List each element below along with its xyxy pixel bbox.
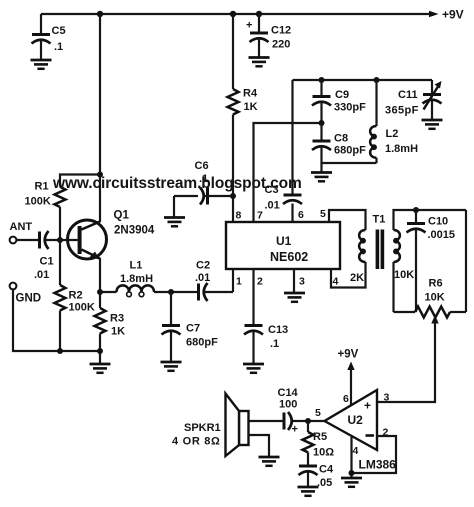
variable capacitor C11 365pF [385, 80, 442, 119]
node L1-C7 junction [168, 289, 174, 295]
svg-text:1K: 1K [111, 326, 125, 338]
svg-text:C4: C4 [319, 464, 334, 476]
ground below U2 pin4 [341, 478, 362, 487]
svg-text:C9: C9 [335, 89, 349, 101]
IC U1 NE602 [226, 222, 340, 269]
svg-text:7: 7 [257, 210, 263, 222]
svg-text:3: 3 [299, 276, 305, 288]
svg-text:U1: U1 [276, 234, 292, 248]
capacitor C14 100 (electrolytic) [249, 387, 299, 436]
svg-text:.1: .1 [54, 41, 63, 53]
svg-text:.1: .1 [270, 338, 279, 350]
wire +9V top supply rail [41, 13, 429, 15]
svg-text:.05: .05 [317, 477, 332, 489]
wire T1 secondary top to right bus [394, 210, 467, 230]
capacitor C1 .01 [17, 231, 78, 281]
svg-text:C10: C10 [428, 216, 448, 228]
capacitor C13 .1 [244, 324, 288, 363]
svg-text:C12: C12 [271, 25, 291, 37]
svg-text:NE602: NE602 [270, 250, 308, 264]
svg-text:1: 1 [236, 276, 242, 288]
svg-text:5: 5 [315, 407, 321, 419]
svg-text:C8: C8 [334, 133, 348, 145]
svg-text:100K: 100K [25, 196, 51, 208]
svg-text:LM386: LM386 [359, 458, 397, 472]
svg-text:10K: 10K [425, 292, 445, 304]
svg-text:2: 2 [257, 276, 263, 288]
svg-text:R1: R1 [35, 181, 49, 193]
svg-text:10Ω: 10Ω [313, 447, 334, 459]
wire U1 pin7 to tank junction [254, 123, 322, 222]
svg-text:+9V: +9V [442, 8, 464, 22]
wire U2 pin4 ground drop [350, 437, 352, 477]
svg-text:4: 4 [353, 445, 359, 457]
node base-R1-R2 junction [57, 237, 63, 243]
node C9-C8-pin7 junction [319, 120, 325, 126]
capacitor C7 680pF [162, 292, 219, 361]
capacitor C10 .0015 [407, 210, 456, 312]
ground below R3/Q1 [90, 364, 111, 373]
svg-text:.01: .01 [34, 269, 49, 281]
svg-text:330pF: 330pF [334, 102, 366, 114]
svg-text:680pF: 680pF [334, 145, 366, 157]
wire U1 pin4 to T1 primary bottom [331, 262, 366, 288]
ground below C4 [298, 487, 319, 496]
ground below C11 [422, 120, 443, 129]
potentiometer R6 10K [394, 278, 467, 318]
wire U2 pin2 feedback loop [351, 436, 396, 473]
arrow +9V into U2 pin6 [347, 362, 354, 407]
op-amp U2 LM386 [325, 390, 378, 450]
svg-text:220: 220 [272, 39, 290, 51]
svg-text:GND: GND [16, 293, 42, 305]
svg-text:5: 5 [320, 208, 326, 220]
svg-text:.01: .01 [265, 200, 280, 212]
wire collector riser x=100 [99, 14, 101, 222]
svg-text:100K: 100K [69, 302, 95, 314]
ground below C8 [311, 173, 332, 182]
svg-text:R6: R6 [429, 278, 443, 290]
svg-text:C2: C2 [196, 260, 210, 272]
svg-text:C14: C14 [278, 387, 299, 399]
wire U1 pin5 to T1 primary top [329, 210, 366, 230]
wire U1 pin3 stub [293, 269, 295, 292]
wire T1 secondary bottom to R6 [392, 262, 394, 312]
svg-text:1.8mH: 1.8mH [385, 143, 418, 155]
svg-text:C11: C11 [398, 89, 418, 101]
node pin4-pin2 junction [349, 470, 355, 476]
node rail-R4 junction [230, 11, 236, 17]
capacitor C5 [32, 14, 66, 59]
resistor R1 100K [25, 175, 101, 241]
ground below U1 pin3 [284, 293, 305, 302]
svg-text:365pF: 365pF [385, 105, 419, 117]
svg-text:1.8mH: 1.8mH [120, 273, 153, 285]
ground below C7 [161, 362, 182, 371]
svg-text:L2: L2 [386, 128, 399, 140]
svg-text:R2: R2 [69, 290, 83, 302]
capacitor C9 330pF [312, 80, 366, 123]
svg-text:+: + [246, 20, 252, 32]
svg-text:C7: C7 [186, 323, 200, 335]
wire R6 right leg [465, 210, 467, 312]
node R1-collector riser junction [97, 172, 103, 178]
svg-text:10K: 10K [394, 269, 414, 281]
wire U2 pin5 output [291, 420, 325, 422]
svg-text:C6: C6 [195, 160, 209, 172]
svg-text:R3: R3 [110, 313, 124, 325]
svg-text:100: 100 [279, 399, 297, 411]
svg-text:4 OR 8Ω: 4 OR 8Ω [172, 436, 221, 448]
speaker SPKR1 [172, 394, 249, 457]
node R2-ground bus junction [57, 348, 63, 354]
svg-text:4: 4 [333, 276, 339, 288]
wire tank top bus [293, 79, 433, 81]
svg-text:6: 6 [343, 393, 349, 405]
svg-text:Q1: Q1 [114, 210, 130, 222]
node tank top C9 junction [319, 77, 325, 83]
svg-text:+: + [292, 424, 298, 436]
svg-text:C13: C13 [268, 324, 288, 336]
wire C8 ground stub [320, 163, 322, 172]
svg-text:C1: C1 [40, 256, 54, 268]
svg-text:ANT: ANT [10, 221, 33, 233]
capacitor C6 .1 [174, 160, 233, 217]
capacitor C3 .01 [265, 184, 303, 212]
capacitor C8 680pF [312, 123, 377, 163]
svg-text:6: 6 [298, 209, 304, 221]
svg-text:680pF: 680pF [186, 337, 218, 349]
resistor R4 1K [228, 14, 258, 196]
transformer T1 [359, 214, 400, 270]
capacitor C4 .05 [299, 464, 334, 490]
ground below C12 [249, 58, 270, 67]
ground below C6 [164, 218, 185, 227]
terminal ANT [10, 221, 33, 243]
node R5 junction [305, 418, 311, 424]
resistor R3 1K [95, 292, 126, 363]
svg-text:2N3904: 2N3904 [114, 225, 155, 237]
ground below C13 [243, 364, 264, 373]
inductor L1 1.8mH [100, 260, 197, 297]
svg-text:U2: U2 [348, 413, 364, 427]
ground below C5 [31, 60, 52, 69]
wire emitter drop x=100 [99, 258, 101, 292]
terminal GND [10, 283, 100, 351]
wiper arrow R6 to U2 pin3 [377, 315, 439, 402]
svg-text:3: 3 [384, 392, 390, 404]
node tank top L2 junction [374, 77, 380, 83]
wire U1 pin8 stub [232, 196, 234, 222]
inductor L2 1.8mH [370, 80, 418, 163]
svg-text:www.circuitsstream.blogspot.co: www.circuitsstream.blogspot.com [52, 175, 302, 192]
wire U1 pin2 stub [252, 269, 254, 325]
wire speaker return to ground [249, 435, 270, 456]
svg-text:R4: R4 [243, 88, 258, 100]
svg-text:.0015: .0015 [428, 229, 456, 241]
svg-text:L1: L1 [130, 260, 143, 272]
node rail-C12 junction [256, 11, 262, 17]
svg-text:+: + [364, 399, 371, 413]
resistor R5 10ohm [303, 421, 335, 465]
node C10 top junction [413, 207, 419, 213]
svg-text:R5: R5 [313, 431, 327, 443]
ground below speaker [259, 457, 280, 466]
svg-text:C5: C5 [52, 25, 66, 37]
svg-text:1K: 1K [244, 101, 258, 113]
node emitter-L1-R3 junction [97, 289, 103, 295]
svg-text:SPKR1: SPKR1 [184, 422, 221, 434]
node C6-R4-pin8 junction [230, 193, 236, 199]
svg-text:.01: .01 [195, 272, 210, 284]
svg-text:2K: 2K [350, 272, 364, 284]
transistor Q1 2N3904 [68, 210, 155, 260]
wire U1 pin1 stub [232, 269, 234, 292]
wire U1 pin6 riser [291, 80, 293, 222]
svg-text:8: 8 [236, 210, 242, 222]
capacitor C2 .01 [195, 260, 233, 302]
svg-text:T1: T1 [373, 214, 386, 226]
node R3-ground bus junction [97, 348, 103, 354]
resistor R2 100K [55, 240, 95, 351]
node rail-collector junction [97, 11, 103, 17]
svg-text:+9V: +9V [338, 349, 359, 361]
arrowhead +9V rail [429, 11, 439, 18]
capacitor C12 (electrolytic 220uF) [246, 14, 291, 57]
